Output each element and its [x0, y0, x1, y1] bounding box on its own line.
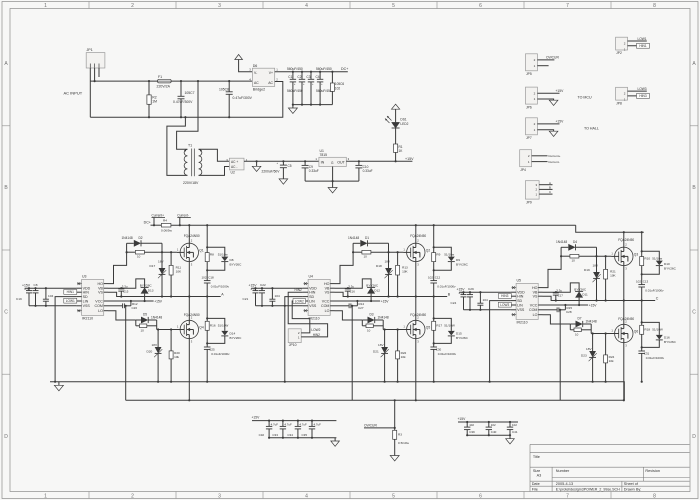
junction	[282, 437, 284, 439]
wire VCC of U3 to +15V stub	[108, 300, 154, 302]
wire JP9 pin2 phase B	[539, 188, 552, 190]
ground symbol below cap bank	[288, 105, 297, 114]
node HIN3 net label	[498, 294, 511, 299]
svg-text:D17: D17	[150, 264, 156, 268]
connector JP7	[526, 118, 538, 140]
junction	[641, 250, 643, 252]
junction	[356, 300, 358, 302]
wire +15V output rail	[346, 160, 412, 162]
zener diode D17 18V	[150, 252, 167, 296]
svg-text:0.47uF/300V: 0.47uF/300V	[233, 96, 253, 100]
capacitor C32 4.7uF	[259, 421, 279, 438]
junction	[641, 321, 643, 323]
wire DC+ entry	[151, 224, 162, 226]
svg-text:Sheet of: Sheet of	[624, 482, 639, 486]
svg-text:6: 6	[479, 494, 482, 500]
svg-text:C41: C41	[512, 430, 518, 434]
junction	[297, 420, 299, 422]
svg-text:JP5: JP5	[526, 72, 532, 76]
wire AC rail1 to T1 primary top	[177, 81, 198, 149]
svg-text:R16: R16	[210, 323, 216, 327]
svg-text:104: 104	[275, 294, 280, 298]
svg-text:560uF/450: 560uF/450	[316, 89, 332, 93]
junction	[641, 273, 643, 275]
svg-text:JP2: JP2	[616, 51, 622, 55]
svg-text:IR2110: IR2110	[82, 317, 93, 321]
transistor Q3 FQA24N50	[611, 238, 638, 270]
junction	[310, 104, 312, 106]
resistor R11 10K	[169, 252, 182, 296]
diode D14 BYV26C snubber	[207, 318, 242, 343]
junction	[94, 80, 96, 82]
svg-text:4.7uF: 4.7uF	[314, 423, 322, 427]
border row ticks and labels	[2, 61, 698, 440]
junction	[351, 305, 353, 307]
junction	[28, 287, 30, 289]
transistor Q1 FQA24N50	[177, 234, 204, 266]
wire HO of U4 to gate network	[335, 243, 354, 283]
wire JP4 pin1 to Current-	[532, 161, 548, 163]
svg-text:COM: COM	[95, 304, 103, 308]
capacitor C9 0.33uF	[302, 161, 319, 181]
wire JP8 pin1 HIN3	[628, 95, 647, 97]
svg-text:LED2: LED2	[400, 122, 408, 126]
junction	[415, 399, 417, 401]
junction	[120, 287, 122, 289]
svg-text:File: File	[532, 487, 538, 491]
svg-text:LO: LO	[98, 309, 103, 313]
junction	[292, 71, 294, 73]
junction	[254, 287, 256, 289]
svg-text:SD: SD	[309, 295, 314, 299]
junction	[559, 309, 561, 311]
wire source of Q6 to source bus	[623, 343, 625, 401]
svg-text:C22: C22	[260, 283, 266, 287]
svg-text:BYV26C: BYV26C	[140, 283, 153, 287]
capacitor C22 4.7u	[259, 283, 266, 306]
svg-text:TO MCU: TO MCU	[578, 95, 593, 99]
resistor R10 51/10w snubber	[640, 232, 663, 274]
svg-text:A3: A3	[537, 473, 542, 477]
svg-text:560uF/450: 560uF/450	[287, 89, 303, 93]
diode D11 BYV26C bootstrap	[574, 287, 588, 305]
fuse F1 220V/2A	[157, 75, 172, 88]
svg-text:C: C	[692, 310, 696, 316]
svg-text:1N4148: 1N4148	[556, 240, 567, 244]
svg-text:IN: IN	[321, 161, 325, 165]
resistor R5 10 high side	[127, 250, 177, 258]
svg-text:HIN2: HIN2	[295, 288, 302, 292]
svg-text:R17: R17	[436, 323, 442, 327]
value labels 560uF/450 for C1-C4	[287, 67, 332, 93]
svg-text:B: B	[549, 186, 551, 190]
junction	[466, 421, 468, 423]
capacitor C39 102	[464, 422, 475, 435]
svg-text:0.01uF/1000v: 0.01uF/1000v	[211, 284, 230, 288]
wire AC rail1 right segment to bridge AC pin	[171, 80, 252, 82]
resistor R6 102 bleeder	[330, 72, 344, 105]
capacitor C4 560uF/450	[316, 72, 324, 105]
svg-text:8: 8	[653, 494, 656, 500]
svg-text:BYV26C: BYV26C	[574, 287, 587, 291]
svg-text:10k: 10k	[609, 359, 614, 363]
wire HO of U3 to gate network	[108, 243, 127, 283]
zener diode D23 18V	[581, 334, 597, 382]
svg-text:102: 102	[636, 279, 641, 283]
wire phase B to drain of Q5	[415, 297, 417, 321]
junction	[555, 299, 557, 301]
junction	[384, 328, 386, 330]
svg-text:Number: Number	[556, 469, 570, 473]
diode D12 BYV26C bootstrap	[366, 283, 380, 301]
svg-text:C8: C8	[34, 283, 38, 287]
junction	[415, 295, 417, 297]
ground symbol at U2 output	[252, 161, 261, 171]
svg-text:1: 1	[44, 3, 47, 9]
svg-text:+15V: +15V	[589, 303, 598, 307]
power symbol VCC above LED	[392, 104, 400, 109]
svg-text:102: 102	[512, 423, 517, 427]
wire source of Q2 to phase B	[415, 262, 417, 297]
wire COM of U3 down to source bus	[125, 306, 127, 401]
svg-text:C17: C17	[558, 293, 564, 297]
capacitor C21 4.7u	[243, 287, 259, 306]
capacitor C13 0.01uF/1000v snubber	[636, 274, 664, 300]
svg-text:18V: 18V	[158, 260, 164, 264]
junction	[188, 295, 190, 297]
svg-text:R10: R10	[644, 257, 650, 261]
wire +15V rail of right decoupling bank	[458, 421, 518, 423]
svg-text:FQA24N50: FQA24N50	[410, 234, 426, 238]
wire T1 secondary top to U2	[199, 149, 230, 161]
resistor R16 51/10W snubber	[205, 297, 228, 348]
svg-text:Q2: Q2	[426, 248, 431, 252]
connector JP1	[86, 48, 105, 68]
wire DC+ to drain of Q2	[415, 225, 417, 243]
resistor R18 51/10W snubber	[640, 301, 663, 352]
ground symbol below C5	[279, 179, 288, 184]
svg-text:D19: D19	[584, 268, 590, 272]
wire JP5 pin1	[537, 65, 548, 67]
svg-text:JP7: JP7	[526, 136, 532, 140]
svg-text:VCC: VCC	[95, 299, 103, 303]
svg-text:C2: C2	[297, 75, 301, 79]
wire return rail of left decoupling bank	[269, 437, 336, 439]
svg-text:102: 102	[491, 423, 496, 427]
wire U2 output to regulator U1 IN	[244, 160, 319, 162]
wire VS of U4 phase B line	[335, 292, 448, 296]
capacitor C40 102	[486, 422, 497, 435]
svg-text:JP1: JP1	[87, 48, 93, 52]
junction	[595, 255, 597, 257]
svg-text:D13: D13	[148, 289, 154, 293]
svg-text:C29: C29	[468, 287, 474, 291]
junction	[292, 104, 294, 106]
svg-text:LOW2: LOW2	[295, 299, 304, 303]
capacitor C34 4.7uF	[287, 421, 307, 438]
svg-text:VCC: VCC	[322, 299, 330, 303]
svg-text:HIN1: HIN1	[639, 44, 646, 48]
svg-text:C: C	[549, 190, 551, 194]
capacitor C17 3.3u bootstrap	[553, 289, 563, 301]
svg-text:4.7uF: 4.7uF	[299, 423, 307, 427]
junction	[180, 80, 182, 82]
svg-text:102: 102	[202, 275, 207, 279]
capacitor C25 0.01uF/1000v snubber	[204, 347, 230, 382]
junction	[170, 381, 172, 383]
wire source of Q3 to phase C	[623, 266, 625, 301]
junction	[479, 309, 481, 311]
junction	[268, 420, 270, 422]
junction	[271, 305, 273, 307]
diode D1 1N4148 high side	[348, 236, 389, 252]
junction	[126, 251, 128, 253]
junction	[509, 434, 511, 436]
capacitor C31 0.01uF/1000v snubber	[638, 351, 664, 382]
ground symbol of right decoupling bank	[506, 435, 515, 444]
wire gate of Q5	[383, 329, 406, 331]
wire AC rail2 bottom	[90, 116, 229, 118]
svg-text:V+: V+	[269, 71, 273, 75]
resistor R10 10 high side	[561, 254, 611, 262]
wire AC rail2 to T1 primary bottom	[167, 117, 188, 175]
svg-text:HIN3: HIN3	[501, 294, 508, 298]
junction	[433, 342, 435, 344]
wire HO of U5 to gate network	[543, 247, 562, 287]
junction	[282, 420, 284, 422]
wire LED to VCC arrow	[395, 109, 397, 122]
capacitor C1 560uF/450	[288, 72, 296, 105]
wire gate of Q6	[591, 333, 614, 335]
junction	[130, 300, 132, 302]
junction	[560, 255, 562, 257]
svg-text:3.3u: 3.3u	[556, 289, 562, 293]
svg-text:18V: 18V	[152, 343, 158, 347]
svg-text:BYV26C: BYV26C	[664, 340, 677, 344]
junction	[297, 437, 299, 439]
svg-text:D3: D3	[370, 312, 374, 316]
wire VB of U3 to bootstrap diode	[108, 279, 145, 288]
junction	[206, 317, 208, 319]
svg-text:5: 5	[392, 3, 395, 9]
junction	[188, 224, 190, 226]
svg-text:BYV26C: BYV26C	[456, 263, 469, 267]
junction	[161, 251, 163, 253]
svg-text:E:\protel\design\3POWER_2_99se: E:\protel\design\3POWER_2_99se.SCH	[556, 487, 620, 491]
svg-text:HIN1: HIN1	[67, 290, 74, 294]
bridge rectifier D6 Bridge2	[249, 64, 278, 92]
junction	[148, 80, 150, 82]
svg-text:18V: 18V	[593, 264, 599, 268]
svg-text:C35: C35	[302, 433, 308, 437]
svg-text:D9: D9	[456, 258, 460, 262]
svg-text:U2: U2	[231, 171, 235, 175]
svg-text:Q4: Q4	[199, 326, 204, 330]
junction	[120, 295, 122, 297]
svg-text:0.01uF/1000v: 0.01uF/1000v	[438, 352, 457, 356]
svg-text:LIN: LIN	[517, 303, 523, 307]
wire COM of U4 down to source bus	[351, 306, 353, 401]
wire JP8 pin2 LOW3	[628, 90, 647, 92]
junction	[179, 224, 181, 226]
svg-text:U3: U3	[82, 275, 87, 279]
junction	[301, 104, 303, 106]
svg-text:+15V: +15V	[556, 89, 565, 93]
junction	[301, 71, 303, 73]
svg-text:+15V: +15V	[154, 299, 163, 303]
svg-text:4: 4	[305, 3, 308, 9]
capacitor C24 4.7u	[451, 291, 467, 310]
svg-text:C5: C5	[288, 164, 292, 168]
svg-text:D5: D5	[143, 312, 147, 316]
junction	[397, 251, 399, 253]
junction	[555, 291, 557, 293]
svg-text:R9: R9	[436, 253, 440, 257]
junction	[228, 80, 230, 82]
diode D5 1N4148 low side	[136, 312, 163, 323]
svg-text:D7: D7	[578, 316, 582, 320]
svg-text:D15: D15	[456, 331, 462, 335]
capacitor C10 0.33uF	[355, 161, 372, 181]
wire DC+ to drain of Q3	[623, 232, 625, 247]
wire VB of U5 to bootstrap diode	[543, 283, 580, 292]
svg-text:BYV26C: BYV26C	[230, 336, 243, 340]
diode D3 1N4148 low side	[362, 312, 389, 323]
wire DC+ bus	[171, 224, 576, 226]
junction	[310, 71, 312, 73]
svg-text:D: D	[4, 434, 8, 440]
svg-text:18V: 18V	[378, 343, 384, 347]
svg-text:JP6: JP6	[526, 105, 532, 109]
svg-text:10: 10	[141, 328, 145, 332]
wire LO of U5 to gate network	[543, 315, 571, 324]
junction	[45, 287, 47, 289]
junction	[623, 231, 625, 233]
svg-text:10K: 10K	[610, 274, 616, 278]
svg-text:10K: 10K	[402, 270, 408, 274]
wire source of Q5 to source bus	[415, 339, 417, 401]
svg-text:7: 7	[566, 3, 569, 9]
svg-text:C21: C21	[243, 297, 249, 301]
svg-text:COM: COM	[321, 304, 329, 308]
wire phase A to drain of Q4	[188, 297, 190, 321]
junction	[311, 437, 313, 439]
wire JP9 pin1 phase C	[539, 193, 552, 195]
svg-text:C27: C27	[358, 306, 364, 310]
connector JP5	[526, 54, 538, 76]
svg-text:JP10: JP10	[289, 343, 297, 347]
gate driver U3 IR2110	[76, 275, 108, 321]
svg-text:560uF/450: 560uF/450	[316, 67, 332, 71]
wire SD of U4 to ground rail	[285, 297, 303, 382]
svg-text:C: C	[4, 310, 8, 316]
svg-text:AC -: AC -	[231, 165, 237, 169]
junction	[592, 332, 594, 334]
junction	[148, 116, 150, 118]
wire JP10 pin1 to HIN of U4	[288, 292, 327, 337]
junction	[605, 299, 607, 301]
svg-text:Current-: Current-	[548, 160, 559, 164]
junction	[469, 309, 471, 311]
svg-text:R4: R4	[163, 219, 167, 223]
svg-text:Current+: Current+	[152, 213, 165, 217]
junction	[271, 287, 273, 289]
svg-text:HIN2: HIN2	[313, 333, 320, 337]
svg-text:102: 102	[335, 86, 341, 90]
junction	[433, 295, 435, 297]
junction	[347, 295, 349, 297]
svg-text:HO: HO	[98, 282, 104, 286]
junction	[641, 231, 643, 233]
svg-text:105C7: 105C7	[185, 91, 195, 95]
svg-text:AC: AC	[254, 81, 259, 85]
svg-text:0.5/10w: 0.5/10w	[398, 441, 410, 445]
svg-text:C25: C25	[209, 347, 215, 351]
wire source of Q4 to source bus	[188, 339, 190, 401]
capacitor C27 with resistor R14	[335, 301, 365, 310]
resistor R12 10 low side	[570, 324, 591, 336]
junction	[397, 295, 399, 297]
junction	[462, 291, 464, 293]
resistor R22 10k	[396, 330, 407, 382]
svg-text:2005-4-13: 2005-4-13	[556, 482, 573, 486]
ground symbol of left decoupling bank	[331, 438, 340, 447]
wire U1 GND pin down	[332, 167, 334, 182]
capacitor C33 4.7uF	[272, 421, 292, 438]
svg-text:C4: C4	[316, 75, 320, 79]
capacitor C3 560uF/450	[306, 72, 314, 105]
svg-text:T1: T1	[188, 144, 192, 148]
capacitor C12 0.01uF/1000v snubber	[428, 270, 456, 296]
svg-text:D14: D14	[230, 331, 236, 335]
wire JP7 pin2 to +15V	[537, 123, 559, 125]
junction	[261, 305, 263, 307]
wire VCC of U4 to +15V stub	[335, 300, 381, 302]
svg-text:C28: C28	[566, 310, 572, 314]
wire T1 secondary bottom to U2	[199, 167, 230, 176]
node LOW2 net label on LIN stub	[293, 299, 306, 304]
junction	[206, 224, 208, 226]
resistor R13 10K	[396, 252, 409, 296]
capacitor C30 0.01uF/1000v snubber	[430, 347, 456, 382]
junction	[623, 299, 625, 301]
svg-text:+15V: +15V	[556, 120, 565, 124]
wire AC rail1 left segment	[90, 80, 157, 82]
svg-text:4: 4	[305, 494, 308, 500]
svg-text:51/10W: 51/10W	[652, 327, 663, 331]
capacitor C16 3.3u bootstrap	[345, 285, 355, 297]
diode D15 BYV26C snubber	[434, 318, 469, 343]
svg-text:51/10W: 51/10W	[218, 323, 229, 327]
junction	[394, 427, 396, 429]
svg-text:C39: C39	[469, 430, 475, 434]
diode D9 BYV26C snubber	[434, 247, 469, 270]
svg-text:FQA24N50: FQA24N50	[618, 238, 634, 242]
svg-text:D16: D16	[664, 335, 670, 339]
svg-text:D11: D11	[582, 293, 588, 297]
svg-text:C1: C1	[288, 75, 292, 79]
svg-text:DC+: DC+	[144, 221, 151, 225]
transistor Q2 FQA24N50	[403, 234, 430, 266]
svg-text:1N4148: 1N4148	[378, 316, 389, 320]
ground symbol at JP6	[549, 100, 558, 105]
svg-text:OV/CUR: OV/CUR	[364, 424, 377, 428]
svg-text:2: 2	[131, 494, 134, 500]
capacitor C11 104	[43, 288, 54, 306]
junction	[384, 381, 386, 383]
svg-text:0.01uF/1000v: 0.01uF/1000v	[437, 284, 456, 288]
ground symbol below U1	[328, 181, 337, 193]
